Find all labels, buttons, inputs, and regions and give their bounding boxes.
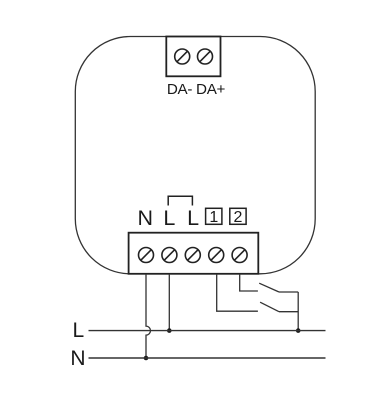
terminal block mains (bottom) xyxy=(129,233,259,274)
screw terminal N xyxy=(139,248,154,263)
wire N terminal to mains N with hop over L line xyxy=(146,274,151,358)
screw terminal 1 xyxy=(209,248,224,263)
junction dot on mains L xyxy=(167,328,172,333)
screw terminal L in xyxy=(162,248,177,263)
mains line L xyxy=(89,330,326,332)
terminal DA+ screw xyxy=(198,49,213,64)
svg-text:DA- DA+: DA- DA+ xyxy=(167,81,226,98)
svg-text:L: L xyxy=(163,206,175,230)
svg-text:N: N xyxy=(70,347,85,370)
svg-text:2: 2 xyxy=(234,209,243,226)
label boxed 1 (terminal 4) xyxy=(206,208,222,226)
screw terminal L link xyxy=(185,248,200,263)
label boxed 2 (terminal 5) xyxy=(230,208,246,226)
svg-text:L: L xyxy=(73,319,85,342)
svg-text:N: N xyxy=(138,206,154,230)
terminal block DA (top) xyxy=(166,37,220,77)
switch S2 lever xyxy=(260,302,279,312)
junction dot on mains N xyxy=(144,356,149,361)
wire terminal 1 to switch S2 xyxy=(217,274,258,311)
device outline (DALI actuator housing) xyxy=(75,37,315,274)
junction dot switches on mains L xyxy=(296,328,301,333)
wire switches to mains L xyxy=(297,292,299,331)
wire L terminal to mains L xyxy=(168,274,170,331)
svg-text:L: L xyxy=(187,206,199,230)
svg-text:1: 1 xyxy=(209,209,218,226)
wire terminal 2 to switch S1 xyxy=(240,274,258,291)
mains line N xyxy=(89,357,326,359)
switch S1 lever xyxy=(259,283,279,292)
switch S2 output wire xyxy=(279,311,298,313)
jumper bracket over L-L xyxy=(168,196,192,205)
switch S1 output wire xyxy=(279,291,298,293)
terminal DA- screw xyxy=(175,49,190,64)
screw terminal 2 xyxy=(232,248,247,263)
